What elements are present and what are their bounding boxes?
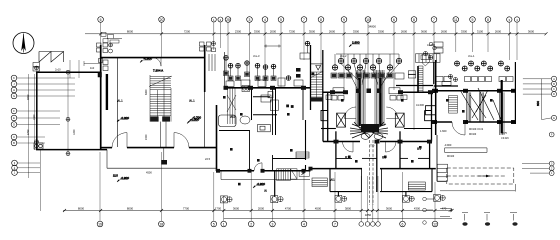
top grid bubbles [98,17,520,23]
svg-text:J1L-2: J1L-2 [340,54,347,58]
short dim line left of wall x101 [84,61,100,66]
circles pair lower right of shaft [449,75,458,82]
manifold line above cluster D [335,54,399,65]
upper wall y85.5 [396,85,458,88]
wall W1 top long [101,57,205,59]
svg-text:-0.900: -0.900 [444,143,452,147]
svg-text:8: 8 [413,18,415,22]
bottom grid bubble numbers [98,222,437,226]
interior walls y158.4 center units [336,157,430,159]
svg-text:2600: 2600 [401,30,408,34]
stair ST2 (mid small) [277,169,291,181]
right edge bubble letters [551,78,555,175]
svg-text:18: 18 [159,222,163,226]
bathroom fixtures unit3 [226,78,303,102]
svg-text:B1: B1 [417,147,421,151]
svg-text:W3: W3 [230,115,235,119]
pipe junction X cluster [350,122,388,138]
left grid bubble letters [13,76,16,175]
svg-text:2600: 2600 [495,30,502,34]
svg-text:3900: 3900 [27,94,30,100]
small dim bracket above cluster C [264,45,281,48]
patio divider walls [362,169,382,192]
svg-text:D: D [13,123,15,127]
misc small texts [55,43,475,175]
unit3 interior walls [252,88,278,135]
unit labels [117,99,421,193]
svg-text:20: 20 [160,18,164,22]
upper stair box right-center unit [416,54,441,66]
bay bump left [321,111,328,121]
north arrow [13,33,34,54]
svg-text:-0.900: -0.900 [121,176,130,180]
door arcs bottom center wall [343,142,354,153]
unit3 basin [240,116,250,124]
svg-text:7200: 7200 [184,30,191,34]
porch outline below left units [107,150,217,169]
right annex steps lines [445,148,487,153]
svg-text:6000: 6000 [145,89,148,95]
riser cluster E circles [455,61,510,71]
svg-text:DN75: DN75 [501,133,508,135]
svg-text:1: 1 [223,222,225,226]
level flag -0.900 left [140,60,151,63]
dark chunks across bundle wall [356,89,382,94]
right section top boxes [421,42,443,60]
column marker circles on grid [35,66,71,156]
svg-text:4500: 4500 [146,171,152,175]
svg-text:3300: 3300 [254,30,261,34]
narrow stair dark edge [417,66,419,92]
svg-text:7700: 7700 [183,206,190,210]
svg-text:12: 12 [433,222,437,226]
svg-text:41.600: 41.600 [427,43,435,47]
svg-text:2600: 2600 [329,30,336,34]
door arc D2 [174,133,189,148]
left grid bubbles [11,75,17,175]
svg-text:3: 3 [249,18,251,22]
porch step box with arrow [299,171,309,177]
pipe junction dark blob [361,124,379,133]
svg-text:19: 19 [98,222,102,226]
wall bottom y147.6 with door gaps [101,147,217,149]
svg-text:2.600: 2.600 [352,41,360,45]
door arc D1 [112,133,127,148]
svg-text:4: 4 [303,222,305,226]
svg-text:8000: 8000 [78,206,85,210]
left vertical dimension lines [28,60,79,211]
door arc D3 entrance [153,58,162,67]
svg-text:4: 4 [264,18,266,22]
riser cluster D circles row [332,58,401,70]
svg-text:B1: B1 [345,156,349,160]
center unit vertical walls [323,110,430,192]
svg-text:4700: 4700 [285,206,292,210]
stair ST1 landing cells [150,116,158,121]
svg-text:2000: 2000 [270,30,277,34]
circles pair right of x420 [424,52,433,60]
dark chunks wall y141.5 [334,140,433,144]
svg-text:W1: W1 [330,178,335,182]
bottom right small ticks and bubbles [462,213,518,226]
vent grille box1 [408,182,425,190]
svg-text:10: 10 [366,18,370,22]
svg-text:i=0.026: i=0.026 [501,138,509,140]
pipe bundle P3 [467,92,471,122]
svg-text:22.5: 22.5 [113,175,118,178]
svg-text:-0.900: -0.900 [257,182,266,186]
riser cluster C circles [224,41,310,80]
door arc D4 right section [452,122,465,135]
right edge bubbles [549,76,556,175]
svg-text:750: 750 [370,144,375,148]
svg-text:6: 6 [402,222,404,226]
pipe drop diagonals cluster D [341,64,399,88]
canopy arrow [478,175,490,178]
svg-text:8000: 8000 [127,206,134,210]
svg-text:1.600: 1.600 [440,129,447,133]
wall vertical x101 [100,45,102,150]
svg-text:J1L-3: J1L-3 [253,54,260,58]
svg-text:110: 110 [90,66,95,70]
cleanout pair center [271,196,283,203]
label box rows mid [326,88,407,100]
svg-text:DN100: DN100 [447,156,455,158]
svg-text:J1L-1: J1L-1 [468,54,475,58]
svg-text:2000: 2000 [258,206,265,210]
top grid bubble numbers [100,18,519,22]
riser wall y87.8 [224,87,311,89]
stair shaft ST3 walls [311,45,323,110]
level flag -0.900 center porch [253,186,264,189]
svg-text:E: E [13,116,15,120]
svg-text:7: 7 [303,18,305,22]
stair ST1 [149,75,172,122]
bay bump right [425,111,432,121]
unit3 kitchen sink [258,124,271,131]
small leader lines bottom right annex [440,209,453,217]
hatched fixture box unit3 [296,152,309,158]
drop pipe to cleanout [274,171,276,197]
bottom dimension line [63,211,452,219]
vertical dim texts left [27,89,148,140]
thick riser pipe at x106.5 [106,74,108,110]
right annex lined box [437,164,447,181]
svg-text:2600: 2600 [441,30,448,34]
svg-text:5: 5 [213,222,215,226]
pipe bundle P5 dark [500,92,505,135]
level flag 2.600 [349,44,360,47]
pipe bundle P2 [375,70,384,126]
pipe bundle P5 core [501,80,503,133]
building bottom wall y168.5 [311,168,436,170]
svg-text:11: 11 [454,18,458,22]
dark label fills cluster D [332,74,393,78]
unit3 bathroom pipes [227,88,236,124]
svg-text:3: 3 [272,222,274,226]
wall vertical x216.5 [216,105,218,171]
svg-text:600: 600 [536,101,540,106]
svg-text:7.304 A: 7.304 A [153,69,163,73]
stair ST3 entry dark dot [312,73,315,76]
right section top wall [434,90,515,92]
right edge leader lines [523,79,552,94]
svg-text:-0.300: -0.300 [191,118,200,122]
unit3 corridor wall x305.5 [273,120,306,171]
bay window left of right section [426,106,436,115]
svg-text:2: 2 [250,222,252,226]
left unit outer walls [36,72,107,150]
stair ST1 exit lines [161,122,168,165]
svg-text:1200: 1200 [73,129,76,135]
svg-text:41.600: 41.600 [416,103,424,107]
svg-text:4300: 4300 [414,206,421,210]
stair ST3 top landing line and arrow [311,64,323,70]
door arc unit3 bottom [254,163,262,171]
svg-text:DN100 i=0.02: DN100 i=0.02 [469,129,484,131]
dark wall chunks riser wall [224,86,516,124]
extra label boxes at bundle tops [331,96,403,101]
room label squares [223,96,493,163]
elevator box E1 with X [337,113,346,127]
unit3 column dots [286,105,293,108]
cleanout pair left [221,196,233,203]
drain pair below junction (dashed) [370,140,374,205]
svg-text:K: K [13,76,15,80]
svg-text:6: 6 [100,18,102,22]
svg-text:1700: 1700 [215,206,222,210]
svg-text:9: 9 [343,18,345,22]
right section right wall [514,62,516,124]
manhole circles right [434,195,446,202]
riser cluster C stems and label boxes [224,46,311,81]
elevator box E2 with X [395,113,404,127]
svg-text:3100: 3100 [477,30,484,34]
unit3 bathtub [219,115,237,127]
unit3 wc fixtures [242,86,278,111]
interior walls y128.5 [321,128,432,130]
unit3 inner walls [219,88,303,171]
center unit mid walls y141.5 [323,141,430,143]
svg-text:-0.900: -0.900 [144,57,153,61]
svg-text:3300: 3300 [461,30,468,34]
svg-text:-0.300: -0.300 [121,116,130,120]
svg-text:3600: 3600 [386,206,393,210]
tiny annotation texts right section [447,129,509,158]
svg-text:3600: 3600 [421,30,428,34]
svg-text:9: 9 [472,18,474,22]
center unit left wall x327.7 [328,92,432,141]
label blob near bubble 6 [101,33,122,44]
svg-text:W-1: W-1 [189,99,195,103]
right section left wall [435,60,437,135]
riser cluster D label boxes [331,73,404,79]
svg-text:3600: 3600 [528,30,535,34]
top dimension texts [127,24,535,33]
svg-text:8: 8 [487,18,489,22]
svg-text:4500: 4500 [315,206,322,210]
left bubble leader lines [17,78,75,173]
riser cluster B (x 200-217) [200,42,216,72]
top dimension ticks [99,32,547,35]
svg-text:H: H [13,88,15,92]
narrow stair shaft x418-423 [418,66,423,92]
meter boxes at left unit corner [33,63,40,72]
level flag -0.300 b [187,121,198,124]
unit3 bottom wall y170.5 [217,170,311,172]
svg-text:34800: 34800 [368,24,376,28]
svg-text:3300: 3300 [378,30,385,34]
svg-text:22.5: 22.5 [205,157,211,161]
svg-text:3800: 3800 [345,206,352,210]
top grid lines vertical [101,22,517,130]
riser cluster A (left shaft) [97,43,113,77]
top dimension line [85,33,546,35]
porch line under ST2 [221,179,310,181]
right vertical dim line [522,79,551,173]
svg-text:25: 25 [226,18,230,22]
svg-text:W: W [264,189,267,193]
patio walls lower [330,169,432,192]
svg-text:8000: 8000 [127,30,134,34]
vent grille box2 [312,178,327,187]
level flag -0.700 [189,119,200,122]
svg-text:7: 7 [433,18,435,22]
door arc center-left [345,107,357,119]
svg-text:1500: 1500 [33,114,36,120]
left fixture box with meters [34,143,43,149]
svg-text:2300: 2300 [235,30,242,34]
door arc center-right [386,107,398,119]
svg-text:D: D [553,93,555,96]
riser cluster E label boxes [436,77,513,82]
svg-text:3300: 3300 [353,30,360,34]
svg-text:2x10: 2x10 [55,68,61,72]
svg-text:7200: 7200 [289,30,296,34]
svg-text:3600: 3600 [233,206,240,210]
svg-text:B: B [13,141,15,145]
canopy dashed rectangle [447,168,514,184]
WC pan fixtures [361,133,383,139]
dark label fills cluster C [224,72,275,80]
cleanout circle pairs bottom [335,192,414,203]
svg-text:2400: 2400 [145,134,148,140]
bottom grid bubbles [97,221,438,227]
svg-text:1850: 1850 [365,213,372,217]
right section bottom wall y122 [434,121,515,123]
level flag -0.300 a [117,120,128,123]
bottom grid lines vertical [100,152,435,221]
svg-text:3500: 3500 [309,30,316,34]
stair ST3 landing [311,98,323,102]
dark chunks left of ST3 [296,68,301,78]
svg-text:2700: 2700 [27,129,30,135]
wall vertical x204.5 [204,45,206,92]
center units top walls y92 [323,91,436,93]
svg-text:W-1: W-1 [117,99,123,103]
svg-text:DN100: DN100 [469,134,477,136]
bottom dimension ticks [63,209,454,212]
bottom left-of-annex tiny bubbles [423,197,434,224]
shaft wall x433.8 [433,62,435,84]
stair ST4 right section [449,96,458,114]
svg-text:6: 6 [393,18,395,22]
svg-text:G: G [13,94,15,98]
pipe bundle P1 dark core [358,78,360,126]
svg-text:7: 7 [334,222,336,226]
level flag -0.900 porch [117,180,128,183]
dark chunks on wall y170.8 [216,167,313,173]
svg-text:8: 8 [320,18,322,22]
pipe bundle P4 [479,92,483,122]
svg-text:B1: B1 [382,156,386,160]
svg-text:C: C [13,135,15,139]
pipe bundle P2 dark core [379,78,381,126]
ramp zigzag symbol top-left [39,52,64,63]
stair ST3 hatch [310,71,324,98]
box right of ST2 [291,169,298,179]
pipe diagonals right section [460,88,501,120]
svg-text:5: 5 [280,18,282,22]
svg-text:C: C [553,88,555,91]
small box pair shaft [408,71,451,85]
bottom dimension texts [78,206,447,217]
interior grid line x68 [67,74,69,151]
pipe bundle P1 [356,70,365,126]
ground line right annex [440,184,515,192]
